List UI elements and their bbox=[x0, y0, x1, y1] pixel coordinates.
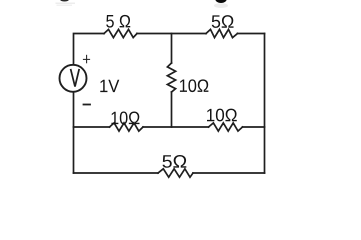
wire: R5 to right vertical bbox=[243, 126, 265, 128]
minus sign bbox=[83, 104, 91, 106]
wire: right vertical bbox=[264, 34, 266, 174]
label 5 ohm (top-right) bbox=[212, 15, 234, 28]
wire: R1 to top middle node bbox=[137, 33, 206, 35]
cropped text remnant (faint streaks under left blob) bbox=[56, 2, 76, 5]
wire: bottom wire left segment bbox=[74, 172, 159, 174]
resistor R3 10ohm (middle vertical) bbox=[167, 63, 175, 92]
resistor R4 10ohm (middle-left) bbox=[110, 123, 144, 131]
wire: R2 to top-right corner bbox=[238, 33, 265, 35]
label 10 ohm (middle vertical) bbox=[180, 79, 208, 92]
cropped text remnant (right blob at top edge) bbox=[215, 0, 226, 3]
cropped text remnant (faint haze under right blob) bbox=[214, 3, 228, 8]
label 5 ohm (top-left) bbox=[106, 15, 130, 28]
voltage source V letter bbox=[71, 69, 80, 87]
resistor R6 5ohm (bottom) bbox=[158, 169, 193, 177]
resistor R1 5ohm (top-left) bbox=[104, 29, 137, 37]
wire: R4 to middle node bbox=[143, 126, 209, 128]
voltage source V1 circle bbox=[60, 65, 87, 92]
label 10 ohm (middle-right) bbox=[207, 109, 237, 122]
wire: R3 to middle wire bbox=[171, 92, 173, 127]
wire: middle vertical upper stub bbox=[171, 34, 173, 64]
wire: left vertical below source to middle wire junction bbox=[73, 92, 75, 174]
wire: top-left corner to resistor R1 bbox=[74, 34, 105, 65]
label 5 ohm (bottom) bbox=[162, 155, 186, 168]
wire: middle wire left segment bbox=[74, 126, 110, 128]
resistor R2 5ohm (top-right) bbox=[206, 29, 238, 37]
label 10 ohm (middle-left) bbox=[111, 112, 139, 125]
plus sign bbox=[83, 55, 90, 64]
wire: R6 to bottom-right corner bbox=[193, 172, 265, 174]
label 1V bbox=[100, 80, 119, 92]
cropped text remnant (left blob at top edge) bbox=[60, 0, 69, 2]
resistor R5 10ohm (middle-right) bbox=[209, 123, 243, 131]
